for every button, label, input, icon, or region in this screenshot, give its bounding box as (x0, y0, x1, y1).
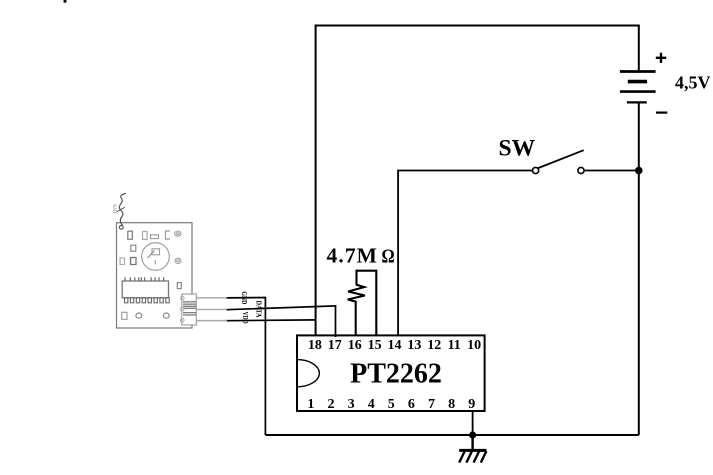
svg-text:2: 2 (328, 397, 335, 412)
svg-text:4: 4 (368, 397, 375, 412)
module top row SMD parts (128, 231, 181, 239)
wire: pin 14 up and left to switch (398, 171, 532, 338)
stray mark (63, 0, 66, 3)
svg-text:8: 8 (448, 397, 455, 412)
svg-text:5: 5 (388, 397, 395, 412)
svg-text:VDD: VDD (241, 312, 249, 324)
module small part right of IC (177, 283, 181, 289)
wire: module DATA to pin 17 (226, 306, 336, 337)
switch SW (533, 150, 585, 173)
svg-text:GND: GND (240, 291, 248, 304)
svg-text:15: 15 (368, 338, 382, 353)
IC U1 PT2262 body (297, 335, 485, 411)
module bottom pads (122, 312, 170, 319)
svg-text:14: 14 (388, 338, 402, 353)
svg-text:17: 17 (328, 338, 342, 353)
svg-text:16: 16 (348, 338, 362, 353)
svg-text:Ω: Ω (382, 247, 395, 268)
wire: bottom ground rail (265, 434, 638, 436)
module trimmer coil (142, 243, 170, 271)
svg-text:3: 3 (348, 397, 355, 412)
pin numbers top row 18-10 (308, 338, 481, 353)
label: battery plus (656, 53, 667, 63)
svg-text:7: 7 (428, 397, 435, 412)
module IC (SAW/encoder) (122, 277, 169, 303)
svg-text:18: 18 (308, 338, 322, 353)
junction: ground node (469, 431, 476, 438)
RF transmitter module PCB outline (117, 223, 193, 328)
wire: switch to battery branch (584, 170, 639, 172)
junction: switch / battery negative (635, 167, 643, 175)
svg-text:13: 13 (407, 338, 421, 353)
label: battery minus (656, 111, 667, 113)
wire: battery - down right side (638, 104, 640, 436)
svg-text:10: 10 (467, 338, 481, 353)
svg-text:SW: SW (499, 136, 536, 162)
wire: module GND to left ground drop (226, 298, 265, 436)
module via pad right (175, 258, 181, 263)
battery BT1 (620, 72, 656, 103)
svg-text:ANT: ANT (111, 203, 117, 214)
svg-text:1: 1 (307, 397, 314, 412)
svg-text:PT2262: PT2262 (350, 359, 442, 390)
svg-text:DATA: DATA (255, 301, 263, 319)
pin numbers bottom row 1-9 (307, 397, 475, 412)
module output connector (181, 294, 228, 325)
wire: pin 9 down to ground rail (472, 411, 474, 435)
resistor R1 between pin 16 and pin 15 (348, 271, 377, 337)
svg-text:6: 6 (408, 397, 415, 412)
wire: module VDD to pin 18 wire (226, 319, 316, 322)
module mid small parts (120, 245, 136, 264)
svg-text:9: 9 (468, 397, 475, 412)
svg-text:12: 12 (427, 338, 441, 353)
wire: pin 18 up, top rail, down to battery + (316, 26, 639, 338)
ground (459, 435, 486, 463)
antenna (117, 193, 126, 229)
svg-text:11: 11 (448, 338, 461, 353)
svg-text:4,5V: 4,5V (675, 73, 711, 93)
svg-text:4.7M: 4.7M (327, 244, 379, 268)
